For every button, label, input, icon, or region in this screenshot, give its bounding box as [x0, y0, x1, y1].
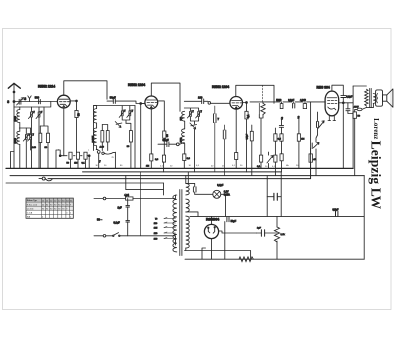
trimmer C23	[267, 156, 273, 164]
wire L1/L2 drops	[19, 107, 21, 168]
wire T1 secondary stubs	[186, 172, 198, 251]
capacitor C9	[101, 131, 104, 142]
svg-text:0,1µF: 0,1µF	[288, 100, 295, 102]
wire V5 top	[211, 216, 213, 224]
resistor R4	[84, 152, 87, 159]
svg-text:1µF: 1µF	[118, 206, 123, 209]
wire V5 bottom	[202, 231, 257, 259]
svg-text:RGN064: RGN064	[206, 218, 219, 222]
wire V4 anode	[339, 102, 353, 104]
trimmer C1	[19, 99, 21, 104]
wire V1 screen to right	[70, 101, 76, 111]
diode D1	[313, 142, 319, 147]
svg-text:REN2 1264: REN2 1264	[212, 85, 229, 89]
switch S5 mains	[106, 233, 176, 245]
svg-text:4-30: 4-30	[100, 147, 105, 149]
tube V4 RES 364 output pentode	[325, 91, 339, 116]
svg-text:4,64: 4,64	[124, 194, 129, 197]
tube V2 REN2 1264	[145, 96, 158, 109]
capacitor C24 5000	[280, 104, 283, 109]
capacitor C10	[106, 131, 109, 142]
resistor R16	[309, 154, 312, 162]
capacitor C27	[279, 125, 283, 127]
wire E drop to transformer	[126, 176, 164, 195]
wire PSU vertical 1	[266, 176, 268, 217]
resistor R11	[280, 134, 283, 141]
svg-text:RES 364: RES 364	[317, 86, 330, 90]
resistor R6	[162, 155, 165, 162]
wire bus B (filament)	[83, 171, 282, 173]
wire V2 anode loop	[151, 83, 180, 111]
resistor R18 cathode	[239, 257, 253, 262]
svg-text:0,1µF: 0,1µF	[114, 221, 121, 224]
svg-text:0,28A: 0,28A	[224, 193, 230, 196]
capacitor C6	[39, 133, 42, 142]
capacitor C35	[126, 206, 130, 207]
svg-text:50µF: 50µF	[231, 220, 237, 223]
trimmer C11	[121, 111, 123, 116]
tube V1 REN2 1214	[57, 95, 70, 108]
svg-text:3: 3	[7, 100, 9, 104]
svg-text:Röhre Typ: Röhre Typ	[27, 199, 38, 202]
wire B+ line	[190, 215, 364, 217]
capacitor C20	[214, 114, 217, 123]
resistor R12	[280, 154, 283, 161]
trimmer C17	[198, 111, 200, 116]
switch S4 contact	[208, 102, 211, 105]
wire shield (dashed)	[261, 85, 263, 103]
capacitor C30	[346, 109, 350, 111]
capacitor C34	[261, 230, 264, 236]
trimmer C3	[31, 112, 33, 117]
transformer T1 secondary heater	[186, 183, 189, 195]
capacitor C22	[260, 155, 263, 162]
svg-text:1000: 1000	[14, 138, 17, 144]
wire V1 cathode	[63, 108, 65, 156]
wire HT right rail	[363, 176, 365, 260]
wire AF line	[250, 101, 325, 103]
switch S3 contact	[176, 143, 179, 146]
svg-text:6,3V: 6,3V	[224, 191, 229, 193]
trimmer C4	[38, 112, 40, 117]
band filter BF2 coil L6	[182, 129, 185, 144]
coil L1	[17, 110, 20, 123]
trimmer C16	[190, 111, 192, 116]
svg-text:REN2 1214: REN2 1214	[38, 85, 55, 89]
svg-text:REN2 1264: REN2 1264	[128, 83, 145, 87]
svg-text:4-30: 4-30	[32, 147, 37, 149]
svg-text:1M: 1M	[301, 139, 304, 141]
antenna	[8, 83, 20, 88]
resistor R3	[76, 152, 79, 159]
aux antenna fork	[28, 96, 31, 102]
capacitor C21	[223, 130, 226, 139]
capacitor C26	[303, 104, 306, 109]
resistor R13	[274, 134, 277, 141]
switch S2 contacts	[97, 151, 100, 154]
capacitor C33 electrolytic	[274, 193, 277, 200]
transformer T1 secondary rectifier fil	[186, 199, 189, 212]
transformer T2 core	[370, 88, 372, 107]
trimmer C5b	[30, 135, 32, 140]
resistor R10	[235, 153, 238, 160]
trimmer C12	[129, 111, 131, 116]
transformer taps	[164, 219, 176, 239]
wire speaker feed	[352, 86, 354, 168]
svg-text:0,1µF: 0,1µF	[346, 97, 353, 99]
svg-text:100: 100	[198, 96, 203, 100]
wire antenna row	[14, 102, 51, 108]
wire line E	[6, 182, 164, 184]
capacitor C15 0,1uF coupling	[167, 142, 169, 147]
wire V4 top loop	[332, 85, 343, 95]
capacitor C14	[129, 131, 132, 142]
wire switch link	[140, 172, 142, 236]
wire V2 grid	[141, 104, 145, 169]
rectifier tube V5 RGN064	[204, 224, 218, 238]
resistor R7	[150, 154, 153, 161]
capacitor C37	[193, 187, 196, 192]
capacitor C31	[353, 112, 357, 118]
wire HT bottom rail	[185, 258, 364, 260]
capacitor C28	[250, 131, 253, 141]
resistor R5	[163, 131, 166, 138]
wire left stub	[11, 152, 15, 169]
svg-text:s: s	[88, 150, 89, 152]
valve data table	[26, 198, 73, 218]
potentiometer P1	[318, 121, 324, 128]
svg-text:50pF: 50pF	[110, 95, 116, 99]
capacitor C36	[126, 221, 130, 222]
wire mains top	[106, 195, 176, 199]
resistor R8	[183, 154, 186, 161]
capacitor C19 100pF grid cap	[202, 99, 204, 104]
svg-text:Ia mA: Ia mA	[27, 211, 33, 214]
wire coupling line	[107, 101, 145, 103]
trimmer C18	[190, 123, 197, 129]
capacitor C7	[47, 133, 50, 142]
band filter BF1 coil L3	[93, 109, 96, 123]
dial lamp LP1	[213, 190, 221, 198]
node k1	[59, 155, 61, 157]
trimmer C13	[115, 122, 122, 128]
capacitor C29	[341, 96, 346, 98]
resistor R14	[274, 155, 277, 162]
resistor R15	[297, 134, 300, 141]
wire V1 grid	[51, 101, 58, 103]
capacitor C2 500pF	[39, 99, 41, 103]
svg-text:0,5µF: 0,5µF	[333, 210, 340, 212]
wire V3 anode loop	[236, 85, 274, 103]
detector coil L7	[261, 103, 265, 114]
transformer T1 core	[180, 190, 182, 256]
svg-text:Lorenz: Lorenz	[372, 118, 379, 139]
wire BF1 top	[94, 106, 97, 151]
transformer T1 secondary HV	[186, 216, 189, 248]
wire V2 screen	[158, 101, 165, 131]
wire V1 anode loop	[64, 81, 107, 99]
svg-text:0,1µF: 0,1µF	[217, 185, 224, 187]
value labels row	[58, 150, 299, 168]
trimmer C5	[26, 135, 28, 140]
wire V4 cathode drop	[224, 222, 226, 260]
wire V4 legs	[328, 116, 336, 121]
transformer T2 secondary	[373, 94, 376, 104]
wire PSU vertical 2	[277, 172, 281, 259]
coil L2	[17, 131, 20, 144]
resistor R1	[75, 110, 78, 117]
resistor R2	[69, 152, 72, 159]
tube V3 REN2 1264	[230, 97, 243, 110]
resistor R9	[245, 111, 248, 119]
svg-text:2µF: 2µF	[257, 228, 261, 230]
svg-text:2M: 2M	[146, 166, 149, 168]
mains terminal b	[94, 235, 103, 237]
svg-text:3: 3	[24, 97, 26, 101]
capacitor C25	[293, 103, 295, 108]
wire bus D (AVC line)	[48, 178, 311, 180]
node antenna junction	[13, 101, 15, 103]
svg-text:0,1µF: 0,1µF	[163, 139, 170, 142]
svg-text:4.640: 4.640	[300, 100, 306, 102]
svg-text:500: 500	[35, 96, 40, 100]
wire cathode return	[185, 251, 251, 260]
wire V3 screen	[243, 103, 247, 112]
band filter BF2 coil L5	[182, 111, 185, 121]
svg-text:R.Soc.Leid: R.Soc.Leid	[27, 204, 38, 206]
wire V3 cathode	[235, 109, 237, 152]
switch S1 on bus D	[42, 177, 45, 180]
capacitor C8 50pF	[113, 99, 115, 104]
svg-text:50 ~: 50 ~	[97, 218, 103, 222]
resistor R17	[274, 227, 279, 242]
svg-text:2M: 2M	[74, 163, 77, 165]
speaker LS	[376, 90, 383, 106]
wire V2 cathode	[150, 109, 152, 154]
svg-text:0,5µF: 0,5µF	[247, 133, 249, 139]
band filter BF1 coil L4	[93, 128, 96, 146]
capacitor C32	[336, 211, 338, 216]
svg-text:1000: 1000	[181, 137, 183, 143]
fuse F1	[126, 197, 134, 200]
svg-text:1000: 1000	[14, 116, 17, 122]
svg-text:Leipzig LW: Leipzig LW	[369, 141, 384, 210]
wire bus C (filament return)	[10, 175, 364, 177]
wire bus A (ground bus)	[6, 167, 353, 169]
mains terminal a	[94, 198, 103, 200]
speaker transformer T2 primary	[365, 89, 368, 106]
svg-text:5000: 5000	[276, 100, 282, 102]
transformer T1 primary	[173, 195, 177, 252]
svg-text:Ua Volt: Ua Volt	[27, 207, 34, 210]
wire AVC drop	[310, 102, 312, 179]
